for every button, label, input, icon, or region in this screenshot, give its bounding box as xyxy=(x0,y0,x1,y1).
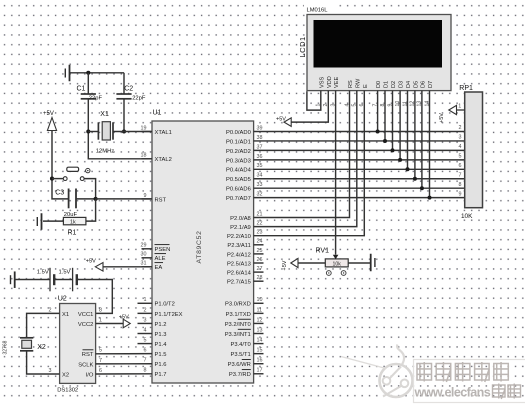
svg-text:P1.5: P1.5 xyxy=(155,352,167,358)
svg-text:P0.4/AD4: P0.4/AD4 xyxy=(226,168,252,174)
svg-text:VEE: VEE xyxy=(334,77,340,88)
svg-text:LM016L: LM016L xyxy=(307,8,329,14)
svg-text:P2.3/A11: P2.3/A11 xyxy=(227,243,250,249)
svg-text:27: 27 xyxy=(257,266,263,272)
svg-text:5: 5 xyxy=(99,348,102,354)
pin 9 RST (U1 left) xyxy=(142,193,167,204)
wire RST node down to R1 xyxy=(86,199,96,221)
svg-text:7: 7 xyxy=(459,172,462,178)
svg-text:X2: X2 xyxy=(37,344,46,351)
svg-text:P0.3/AD3: P0.3/AD3 xyxy=(226,158,251,164)
svg-text:I/O: I/O xyxy=(86,372,94,378)
wire ground to battery B1 xyxy=(16,279,51,281)
svg-text:P1.3: P1.3 xyxy=(155,332,167,338)
wire LCD D7 drop xyxy=(429,91,431,198)
svg-text:P1.6: P1.6 xyxy=(155,362,167,368)
svg-text:P0.5/AD5: P0.5/AD5 xyxy=(226,177,251,183)
power +5V (RP1 pin 1) xyxy=(439,105,456,123)
svg-text:10: 10 xyxy=(257,297,263,303)
pin 11 P3.1/TXD (U1 right) xyxy=(226,307,264,318)
svg-text:P3.0/RXD: P3.0/RXD xyxy=(225,302,251,308)
pin 8 D1 (LCD1) xyxy=(380,81,390,107)
svg-text:9: 9 xyxy=(459,191,462,197)
svg-text:P3.4/T0: P3.4/T0 xyxy=(230,342,250,348)
pin 13 P3.3/INT1 (U1 right) xyxy=(225,327,264,338)
svg-text:P1.2: P1.2 xyxy=(155,322,167,328)
svg-text:6: 6 xyxy=(459,163,462,169)
pin 3 P1.2 (U1 left) xyxy=(138,317,167,328)
wire LCD RW to P2.1 xyxy=(254,91,357,227)
svg-text:1: 1 xyxy=(458,103,461,109)
svg-text:P2.6/A14: P2.6/A14 xyxy=(227,271,252,277)
wire LCD VEE to RV1 wiper xyxy=(335,91,337,255)
svg-text:P1.7: P1.7 xyxy=(155,372,167,378)
pin 3 X2 (U2 left) xyxy=(49,368,70,379)
svg-text:29: 29 xyxy=(141,243,147,249)
wire LCD D4 drop xyxy=(407,91,409,170)
wire C2 top drop xyxy=(123,73,125,94)
svg-text:C1: C1 xyxy=(77,86,86,93)
wire U2 X1 to crystal xyxy=(27,313,60,337)
pin 4 RS (LCD1) xyxy=(344,80,354,107)
pin 17 P3.7/RD (U1 right) xyxy=(229,368,264,379)
svg-text:1: 1 xyxy=(99,317,102,323)
junction D6 on P0.6 row xyxy=(420,186,424,190)
svg-text:22: 22 xyxy=(257,221,263,227)
svg-text:1.5V: 1.5V xyxy=(37,270,49,276)
pin 12 D5 (LCD1) xyxy=(410,81,420,107)
svg-text:32768: 32768 xyxy=(3,340,9,354)
svg-text:D5: D5 xyxy=(414,81,420,88)
wire C1 top drop xyxy=(87,73,89,94)
svg-text:P3.7/RD: P3.7/RD xyxy=(229,372,251,378)
svg-text:26: 26 xyxy=(257,257,263,263)
svg-text:P2.2/A10: P2.2/A10 xyxy=(227,234,251,240)
svg-text:22pF: 22pF xyxy=(89,95,103,101)
capacitor C3 xyxy=(69,189,76,209)
battery cell B2 1.5V xyxy=(73,268,77,292)
watermark text 电子发烧友 (stylized blocks) xyxy=(417,362,508,382)
svg-text:7: 7 xyxy=(99,358,102,364)
wire C2 bottom drop to XTAL1 net xyxy=(123,99,125,132)
pin 9 D2 (LCD1) xyxy=(387,81,397,107)
svg-text:16: 16 xyxy=(257,358,263,364)
junction RST node xyxy=(94,197,98,201)
wire +5V vertical to C3 xyxy=(52,131,68,199)
pin 8 (RP1) xyxy=(459,182,462,188)
resistor R1 xyxy=(63,217,86,225)
wire B1 to B2 xyxy=(54,279,72,281)
junction D4 on P0.4 row xyxy=(406,167,410,171)
svg-text:3: 3 xyxy=(49,368,52,374)
wire P0.1 row to RP1 pin 3 xyxy=(254,140,465,142)
junction C2 / XTAL1 net xyxy=(122,129,126,133)
pin 1 VCC2 (U2 right) xyxy=(78,317,102,328)
pin 28 P2.7/A15 (U1 right) xyxy=(227,275,264,286)
pin 14 D7 (LCD1) xyxy=(424,81,434,107)
wire U2 I/O to U1 P1.7 xyxy=(96,373,152,375)
svg-text:RS: RS xyxy=(348,80,354,88)
svg-text:P3.6/WR: P3.6/WR xyxy=(228,362,251,368)
svg-text:37: 37 xyxy=(257,144,263,150)
svg-text:12MHz: 12MHz xyxy=(96,149,114,155)
wire LCD RS to P2.0 xyxy=(254,91,350,218)
svg-text:P3.1/TXD: P3.1/TXD xyxy=(226,312,251,318)
svg-text:R1: R1 xyxy=(68,230,77,237)
pin 6 E (LCD1) xyxy=(359,84,369,107)
wire C1 bottom to XTAL2 corner xyxy=(88,99,152,159)
svg-text:D1: D1 xyxy=(384,81,390,88)
U1 AT89C52 microcontroller body xyxy=(152,121,254,383)
capacitor C1 xyxy=(81,94,96,99)
svg-text:LCD1: LCD1 xyxy=(298,36,307,57)
wire battery to U2 VCC1 xyxy=(77,280,113,314)
svg-text:21: 21 xyxy=(257,211,263,217)
pin 2 (RP1) xyxy=(459,125,462,131)
svg-text:EA: EA xyxy=(155,265,163,271)
svg-text:8: 8 xyxy=(99,307,102,313)
junction D3 on P0.3 row xyxy=(398,158,402,162)
wire EA to +5V xyxy=(103,266,152,268)
svg-text:24: 24 xyxy=(257,239,263,245)
pin 13 D6 (LCD1) xyxy=(417,81,427,107)
svg-text:39: 39 xyxy=(257,125,263,131)
pin 7 D0 (LCD1) xyxy=(372,81,382,107)
watermark text www.elecfans.com xyxy=(414,384,521,400)
svg-text:P2.5/A13: P2.5/A13 xyxy=(227,261,251,267)
svg-text:6: 6 xyxy=(144,348,147,354)
svg-text:U1: U1 xyxy=(153,110,162,117)
junction D7 on P0.7 row xyxy=(428,196,432,200)
pin 11 D4 (LCD1) xyxy=(402,81,412,107)
potentiometer RV1 xyxy=(325,255,348,276)
svg-text:8: 8 xyxy=(459,182,462,188)
svg-text:D4: D4 xyxy=(406,81,412,88)
svg-text:P0.7/AD7: P0.7/AD7 xyxy=(226,196,251,202)
wire LCD D2 drop xyxy=(392,91,394,151)
pin 2 X1 (U2 left) xyxy=(49,307,70,318)
svg-text:XTAL2: XTAL2 xyxy=(155,157,172,163)
pin 3 (RP1) xyxy=(459,135,462,141)
wire crystal to U2 X2 xyxy=(27,351,60,374)
svg-text:P3.5/T1: P3.5/T1 xyxy=(230,352,250,358)
svg-text:15: 15 xyxy=(257,348,263,354)
crystal X1 xyxy=(98,122,113,140)
ground (RV1) xyxy=(371,254,375,272)
svg-text:P2.4/A12: P2.4/A12 xyxy=(227,252,251,258)
pin 31 EA (U1 left) xyxy=(141,261,164,272)
pin 8 P1.7 (U1 left) xyxy=(144,368,167,379)
pin 10 P3.0/RXD (U1 right) xyxy=(225,297,263,308)
wire LCD D3 drop xyxy=(399,91,401,160)
wire XTAL1 net to U1 xyxy=(113,131,152,133)
pin 8 VCC1 (U2 right) xyxy=(78,307,102,318)
svg-text:P2.0/A8: P2.0/A8 xyxy=(230,216,251,222)
junction D5 on P0.5 row xyxy=(413,177,417,181)
svg-text:P1.0/T2: P1.0/T2 xyxy=(155,302,175,308)
junction D0 on P0.0 row xyxy=(376,130,380,134)
U2 DS1302 body xyxy=(60,304,96,384)
svg-text:X2: X2 xyxy=(62,372,69,378)
pin 25 P2.4/A12 (U1 right) xyxy=(227,248,264,258)
svg-text:P1.1/T2EX: P1.1/T2EX xyxy=(155,312,183,318)
svg-text:P2.1/A9: P2.1/A9 xyxy=(230,225,251,231)
crystal X2 32768Hz xyxy=(20,338,33,351)
svg-text:28: 28 xyxy=(257,275,263,281)
svg-text:D7: D7 xyxy=(428,81,434,88)
pin 4 P1.3 (U1 left) xyxy=(138,327,167,338)
svg-text:14: 14 xyxy=(257,337,263,343)
pin 22 P2.1/A9 (U1 right) xyxy=(230,221,262,232)
svg-text:4: 4 xyxy=(459,144,462,150)
svg-text:P0.6/AD6: P0.6/AD6 xyxy=(226,187,251,193)
pin 23 P2.2/A10 (U1 right) xyxy=(227,230,263,241)
svg-text:18: 18 xyxy=(141,153,147,159)
svg-text:P3.2/INT0: P3.2/INT0 xyxy=(225,322,251,328)
svg-text:P3.3/INT1: P3.3/INT1 xyxy=(225,332,251,338)
pin 18 XTAL2 (U1 left) xyxy=(141,153,172,164)
pin 14 P3.4/T0 (U1 right) xyxy=(230,337,263,348)
pin 1 (RP1) xyxy=(457,103,465,110)
pushbutton (reset) xyxy=(63,167,90,180)
wire +5V to RV1 xyxy=(298,262,325,264)
wire button left link xyxy=(52,178,64,180)
pin 36 P0.3/AD3 (U1 right) xyxy=(226,154,263,165)
pin 33 P0.6/AD6 (U1 right) xyxy=(226,182,263,193)
svg-text:23: 23 xyxy=(257,230,263,236)
svg-text:D2: D2 xyxy=(391,81,397,88)
wire LCD D1 drop xyxy=(384,91,386,141)
svg-text:36: 36 xyxy=(257,154,263,160)
svg-text:SCLK: SCLK xyxy=(78,362,93,368)
power +5V (RV1 left) xyxy=(282,258,298,270)
wire P0.6 row to RP1 pin 8 xyxy=(254,187,465,189)
svg-text:10k: 10k xyxy=(333,261,342,267)
LCD1 LM016L display body xyxy=(304,4,451,91)
svg-text:+5V: +5V xyxy=(282,260,288,270)
svg-text:3: 3 xyxy=(144,317,147,323)
svg-text:ALE: ALE xyxy=(155,256,166,262)
wire C3 right link xyxy=(76,198,96,200)
svg-text:2: 2 xyxy=(144,307,147,313)
svg-text:32: 32 xyxy=(257,192,263,198)
svg-text:11: 11 xyxy=(257,307,263,313)
wire RV1 to ground xyxy=(348,262,370,264)
svg-text:www.elecfans: www.elecfans xyxy=(414,386,491,400)
power +5V (LCD VDD) xyxy=(276,117,291,127)
pin 38 P0.1/AD1 (U1 right) xyxy=(226,135,263,146)
pin 3 VEE (LCD1) xyxy=(330,77,340,107)
pin 37 P0.2/AD2 (U1 right) xyxy=(226,144,263,155)
svg-text:1.5V: 1.5V xyxy=(59,270,71,276)
svg-text:RW: RW xyxy=(355,78,361,88)
svg-text:VSS: VSS xyxy=(319,77,325,88)
wire P0.7 row to RP1 pin 9 xyxy=(254,197,465,199)
wire RST node to U1 xyxy=(96,198,152,200)
RP1 resistor pack body xyxy=(465,92,483,208)
watermark logo (elecfans) xyxy=(341,345,413,398)
pin 16 P3.6/WR (U1 right) xyxy=(228,358,264,369)
pin 9 (RP1) xyxy=(459,191,462,197)
pin 4 (RP1) xyxy=(459,144,462,150)
svg-text:RST: RST xyxy=(155,197,167,203)
battery cell B1 1.5V xyxy=(50,268,54,292)
svg-text:RV1: RV1 xyxy=(316,248,330,255)
ground (top-left, for C1/C2) xyxy=(65,65,69,82)
watermark text box xyxy=(414,360,525,403)
svg-text:22pF: 22pF xyxy=(132,95,146,101)
svg-text:7: 7 xyxy=(144,358,147,364)
pin 7 (RP1) xyxy=(459,172,462,178)
svg-text:VDD: VDD xyxy=(327,76,333,88)
svg-text:2: 2 xyxy=(49,307,52,313)
junction X1 left / C1 branch xyxy=(86,129,90,133)
pin 19 XTAL1 (U1 left) xyxy=(141,125,172,136)
junction D2 on P0.2 row xyxy=(391,148,395,152)
svg-text:AT89C52: AT89C52 xyxy=(196,230,203,263)
svg-text:+5V: +5V xyxy=(86,259,96,265)
svg-text:P0.2/AD2: P0.2/AD2 xyxy=(226,149,251,155)
svg-text:DS1302: DS1302 xyxy=(57,388,78,394)
pin 12 P3.2/INT0 (U1 right) xyxy=(225,317,264,328)
svg-text:5: 5 xyxy=(144,337,147,343)
pin 6 P1.5 (U1 left) xyxy=(144,348,167,359)
svg-text:D6: D6 xyxy=(421,81,427,88)
wire LCD D0 drop xyxy=(377,91,379,132)
svg-text:1k: 1k xyxy=(70,220,76,226)
svg-text:PSEN: PSEN xyxy=(155,247,171,253)
svg-text:4: 4 xyxy=(144,327,147,333)
wire U2 RST to U1 P1.5 xyxy=(96,353,152,355)
pin 5 RW (LCD1) xyxy=(352,78,362,106)
pin 10 D3 (LCD1) xyxy=(395,81,405,107)
svg-text:P2.7/A15: P2.7/A15 xyxy=(227,280,251,286)
pin 1 P1.0/T2 (U1 left) xyxy=(138,297,175,308)
svg-text:VCC2: VCC2 xyxy=(78,322,93,328)
junction D1 on P0.1 row xyxy=(383,139,387,143)
wire LCD D6 drop xyxy=(421,91,423,189)
svg-text:8: 8 xyxy=(144,368,147,374)
pin 15 P3.5/T1 (U1 right) xyxy=(230,348,263,359)
wire X1 left plate link xyxy=(88,131,98,133)
svg-text:X1: X1 xyxy=(100,111,109,118)
svg-text:6: 6 xyxy=(99,368,102,374)
wire P0.2 row to RP1 pin 4 xyxy=(254,149,465,151)
pin 5 P1.4 (U1 left) xyxy=(138,337,168,348)
power +5V (reset branch) xyxy=(43,111,57,131)
pin 26 P2.5/A13 (U1 right) xyxy=(227,257,264,268)
wire LCD VDD to +5V xyxy=(291,91,328,123)
ground (R1) xyxy=(37,213,41,230)
svg-text:17: 17 xyxy=(257,368,263,374)
junction C1 top on ground rail xyxy=(86,71,90,75)
junction button tap on +5V line xyxy=(50,177,54,181)
svg-text:P1.4: P1.4 xyxy=(155,342,168,348)
svg-text:XTAL1: XTAL1 xyxy=(155,130,172,136)
pin 34 P0.5/AD5 (U1 right) xyxy=(226,173,263,184)
wire button right link xyxy=(84,179,96,199)
svg-text:VCC1: VCC1 xyxy=(78,312,93,318)
pin 5 (RP1) xyxy=(459,154,462,160)
wire ground rail to C1/C2 xyxy=(70,72,124,74)
power +5V (U2 VCC2) xyxy=(119,314,130,328)
svg-text:30: 30 xyxy=(141,252,147,258)
svg-text:31: 31 xyxy=(141,261,147,267)
svg-text:38: 38 xyxy=(257,135,263,141)
pin 30 ALE (U1 left) xyxy=(141,252,167,263)
pin 7 SCLK (U2 right) xyxy=(78,358,102,369)
wire LCD VSS loop xyxy=(307,91,321,111)
svg-text:RST: RST xyxy=(82,352,94,358)
wire P0.3 row to RP1 pin 5 xyxy=(254,159,465,161)
wire U2 VCC2 to +5V xyxy=(96,323,124,325)
svg-text:E: E xyxy=(363,84,369,88)
svg-text:13: 13 xyxy=(257,327,263,333)
wire P0.5 row to RP1 pin 7 xyxy=(254,178,465,180)
svg-text:D0: D0 xyxy=(376,81,382,88)
svg-text:10K: 10K xyxy=(461,213,473,220)
wire LCD D5 drop xyxy=(414,91,416,179)
svg-text:34: 34 xyxy=(257,173,263,179)
pin 6 (RP1) xyxy=(459,163,462,169)
pin 21 P2.0/A8 (U1 right) xyxy=(230,211,262,222)
pin 7 P1.6 (U1 left) xyxy=(144,358,167,369)
pin 27 P2.6/A14 (U1 right) xyxy=(227,266,264,277)
power +5V (EA pin) xyxy=(86,259,103,272)
wire LCD E to P2.2 xyxy=(254,91,365,236)
svg-text:33: 33 xyxy=(257,182,263,188)
wire P0.4 row to RP1 pin 6 xyxy=(254,168,465,170)
wire P0.0 row to RP1 pin 2 xyxy=(254,131,465,133)
wire U2 SCLK to U1 P1.6 xyxy=(96,363,152,365)
pin 32 P0.7/AD7 (U1 right) xyxy=(226,192,263,203)
pin 2 P1.1/T2EX (U1 left) xyxy=(138,307,183,318)
svg-text:X1: X1 xyxy=(62,312,69,318)
ground (battery left end) xyxy=(11,271,15,288)
svg-text:RP1: RP1 xyxy=(459,85,473,92)
pin 2 VDD (LCD1) xyxy=(323,76,333,106)
svg-text:D3: D3 xyxy=(399,81,405,88)
svg-text:+5V: +5V xyxy=(439,113,445,123)
svg-text:19: 19 xyxy=(141,125,147,131)
capacitor C2 xyxy=(116,94,131,99)
svg-text:C3: C3 xyxy=(55,190,64,197)
pin 24 P2.3/A11 (U1 right) xyxy=(227,239,263,250)
svg-text:35: 35 xyxy=(257,163,263,169)
svg-text:U2: U2 xyxy=(58,296,67,303)
svg-text:5: 5 xyxy=(459,154,462,160)
pin 29 PSEN (U1 left) xyxy=(141,243,171,254)
pin 39 P0.0/AD0 (U1 right) xyxy=(226,125,263,136)
svg-text:12: 12 xyxy=(257,317,263,323)
pin 35 P0.4/AD4 (U1 right) xyxy=(226,163,263,174)
svg-text:P0.1/AD1: P0.1/AD1 xyxy=(226,139,251,145)
svg-text:C2: C2 xyxy=(124,86,133,93)
wire R1 to ground xyxy=(43,220,63,222)
pin 6 I/O (U2 right) xyxy=(86,368,102,379)
svg-text:+5V: +5V xyxy=(43,111,54,117)
svg-text:2: 2 xyxy=(459,125,462,131)
pin 1 VSS (LCD1) xyxy=(316,77,326,107)
svg-text:3: 3 xyxy=(459,135,462,141)
svg-text:9: 9 xyxy=(144,193,147,199)
svg-text:1: 1 xyxy=(144,297,147,303)
pin 5 RST (U2 right) xyxy=(82,348,102,359)
svg-text:25: 25 xyxy=(257,248,263,254)
svg-text:P0.0/AD0: P0.0/AD0 xyxy=(226,130,251,136)
